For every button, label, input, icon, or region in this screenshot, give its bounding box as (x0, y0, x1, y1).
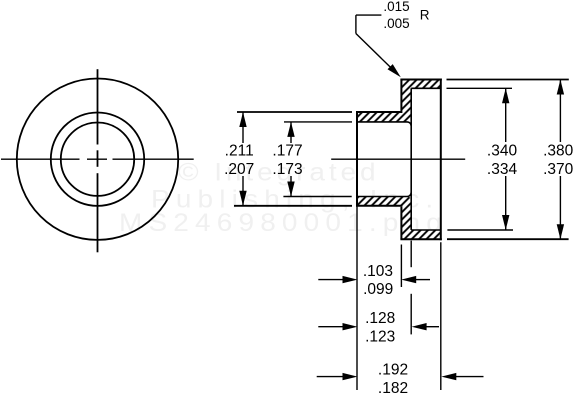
dimension .211/.207 (224, 112, 254, 206)
svg-text:.128: .128 (365, 310, 395, 327)
svg-text:R: R (420, 7, 430, 22)
front view middle circle (barrel OD) (51, 113, 144, 206)
dimension .380/.370 (543, 80, 573, 240)
svg-text:.015: .015 (383, 0, 409, 14)
dimension .340/.334 (487, 88, 518, 230)
section outline: step face upper (400, 80, 402, 112)
svg-text:.173: .173 (272, 161, 302, 178)
svg-text:.177: .177 (272, 143, 302, 160)
ext line barrel OD bottom (left) (234, 205, 352, 207)
ext line left face (down) (356, 206, 358, 390)
section hatched material upper (357, 80, 441, 122)
ext line step face (down) (400, 245, 402, 288)
section centerline (331, 158, 465, 160)
leader .015/.005 R (356, 0, 430, 77)
svg-text:MS246980001.png: MS246980001.png (119, 208, 448, 236)
ext line barrel OD top (left) (237, 111, 352, 113)
section hatched material lower (357, 197, 441, 240)
dimension .128/.123 (318, 310, 439, 345)
section outline: recess rim top (411, 87, 441, 89)
section outline: bore top (357, 122, 411, 126)
svg-text:.207: .207 (224, 161, 254, 178)
ext line bore bottom (left) (283, 196, 351, 198)
ext line flange top (right) (447, 79, 569, 81)
front view horizontal centerline (1, 158, 194, 160)
section outline: barrel OD top (356, 111, 402, 113)
svg-text:.211: .211 (225, 143, 254, 160)
svg-text:.192: .192 (378, 362, 408, 379)
section outline: barrel OD bottom (356, 205, 402, 207)
section outline: recess rim bottom (411, 229, 441, 231)
svg-text:.380: .380 (543, 143, 573, 160)
svg-text:.099: .099 (363, 281, 393, 298)
ext line recess rim top (right) (447, 87, 513, 89)
ext line right face (down) (440, 242, 442, 390)
section outline: flange right face (440, 79, 442, 241)
svg-text:.182: .182 (378, 380, 408, 393)
svg-text:.103: .103 (363, 263, 393, 280)
front view outer circle (flange OD) (17, 79, 178, 240)
svg-text:.370: .370 (543, 161, 573, 178)
front view inner circle (bore) (61, 123, 134, 196)
front view vertical centerline (97, 69, 99, 252)
section outline: left face (356, 112, 358, 206)
ext line recess bottom face (down) seg2 (410, 294, 412, 335)
section outline: recess bottom face (410, 88, 412, 230)
svg-text:.340: .340 (487, 143, 518, 160)
ext line recess rim bottom (right) (447, 229, 513, 231)
ext line recess bottom face (down) seg1 (410, 241, 412, 268)
svg-text:.005: .005 (383, 16, 409, 31)
section outline: flange top (400, 79, 441, 81)
section outline: bore bottom (357, 193, 411, 197)
svg-text:.123: .123 (365, 328, 395, 345)
section outline: step face lower (400, 207, 402, 239)
ext line flange bottom (right) (447, 238, 569, 240)
dimension .192/.182 (317, 362, 484, 393)
dimension .103/.099 (318, 263, 430, 298)
section outline: flange bottom (400, 238, 441, 240)
svg-text:.334: .334 (487, 161, 518, 178)
ext line bore top (left) (284, 121, 352, 123)
dimension .177/.173 (272, 122, 302, 197)
